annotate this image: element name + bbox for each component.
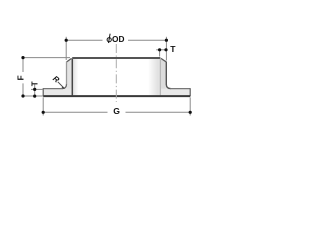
cavity right shading [148, 59, 160, 96]
dimension F (overall height) [23, 58, 70, 96]
right wall material shading [161, 60, 166, 89]
dimension T left dots [33, 88, 36, 91]
top edge [72, 57, 160, 59]
centerline [115, 44, 117, 102]
cavity (white interior) [72, 59, 160, 96]
svg-text:T: T [170, 44, 176, 54]
radius R leader line [58, 82, 64, 88]
right wall outer face [165, 62, 167, 85]
left wall outer face [66, 62, 68, 85]
right wall inner face [159, 59, 161, 96]
dimension phi-OD end dots [65, 39, 68, 42]
left wall inner face [71, 59, 73, 96]
cavity left shading [73, 59, 79, 96]
part body silhouette (flanged cup section, gray fill) [43, 58, 190, 97]
svg-text:F: F [17, 75, 26, 80]
svg-text:T: T [31, 81, 40, 86]
dimension G dots [42, 111, 45, 114]
left wall material shading [67, 61, 71, 89]
svg-text:OD: OD [112, 34, 124, 44]
flange right end edge [189, 88, 191, 96]
top-left shoulder chamfer [67, 58, 72, 62]
svg-text:G: G [113, 106, 120, 116]
dimension F dots [21, 56, 24, 59]
dimension phi-OD line [66, 37, 166, 61]
radius R arrowhead [62, 87, 65, 90]
flange top line left [43, 88, 62, 90]
flange left end edge [42, 88, 44, 96]
flange top line right [170, 88, 190, 90]
right fillet radius [166, 84, 170, 88]
left fillet radius [62, 84, 67, 88]
bottom edge [43, 95, 190, 97]
dimension T right (wall thickness) [156, 50, 166, 57]
dimension T right dots [158, 48, 161, 51]
top-right shoulder chamfer [161, 58, 166, 62]
dimension G line [43, 97, 190, 115]
label phi-OD [107, 34, 124, 45]
dimension T left (flange thickness) [31, 85, 43, 97]
